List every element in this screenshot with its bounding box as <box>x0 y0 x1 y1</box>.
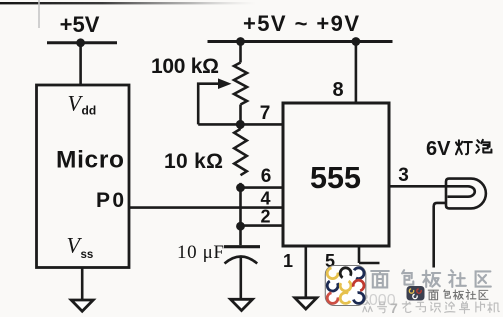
svg-text:8: 8 <box>332 79 343 101</box>
svg-text:7: 7 <box>390 300 398 316</box>
svg-text:dd: dd <box>82 104 97 118</box>
svg-text:P0: P0 <box>96 189 124 212</box>
svg-text:6: 6 <box>261 166 272 187</box>
svg-text:10 kΩ: 10 kΩ <box>164 150 223 173</box>
svg-text:7: 7 <box>260 103 271 124</box>
svg-text:+5V ~ +9V: +5V ~ +9V <box>243 11 359 36</box>
svg-text:4: 4 <box>260 189 270 209</box>
svg-text:+5V: +5V <box>60 12 100 37</box>
svg-text:1: 1 <box>283 251 293 271</box>
svg-text:3: 3 <box>398 165 409 186</box>
svg-text:2: 2 <box>260 207 270 227</box>
svg-text:555: 555 <box>310 161 361 195</box>
svg-text:100 kΩ: 100 kΩ <box>151 55 219 78</box>
svg-text:6V: 6V <box>426 138 451 160</box>
svg-text:ss: ss <box>81 249 94 261</box>
svg-text:Micro: Micro <box>56 147 124 174</box>
svg-text:10 μF: 10 μF <box>177 242 224 263</box>
